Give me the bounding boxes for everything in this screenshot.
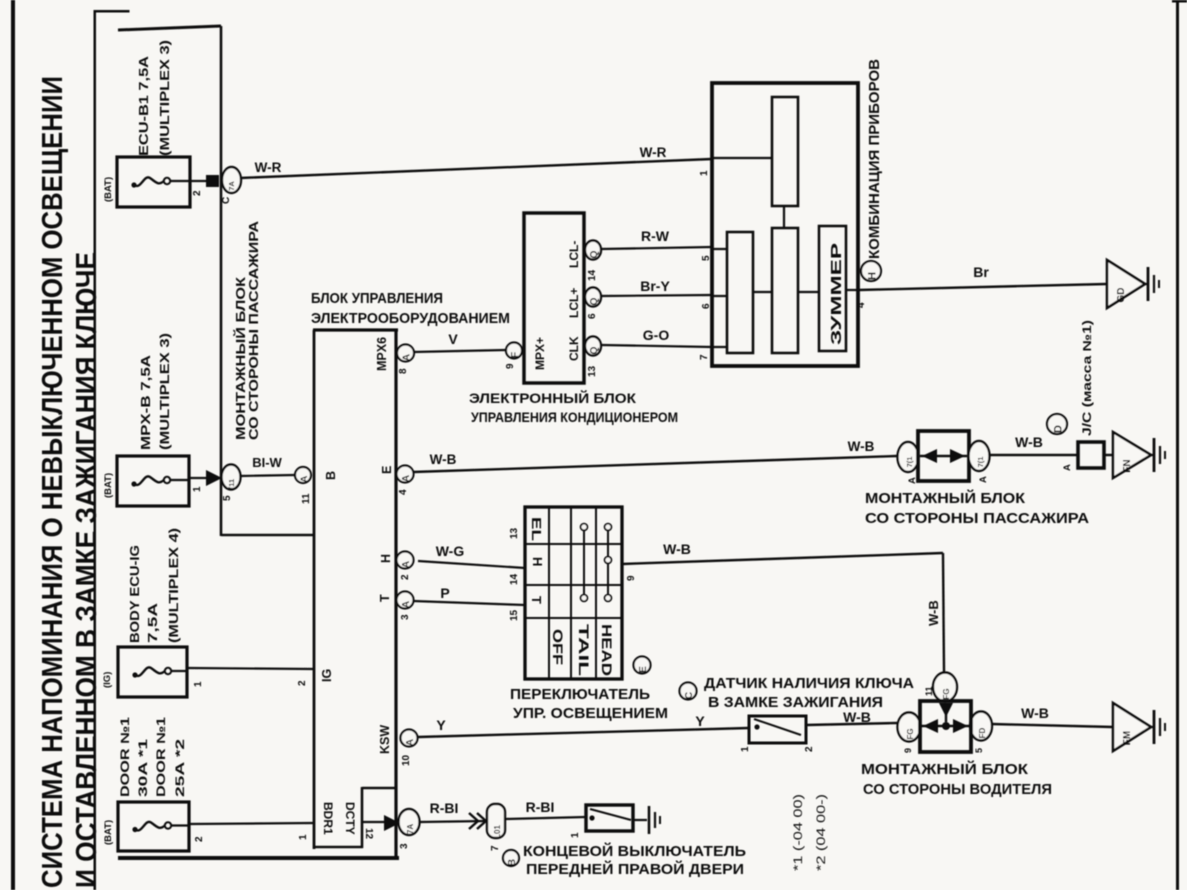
svg-text:И ОСТАВЛЕННОМ В ЗАМКЕ ЗАЖИГАНИ: И ОСТАВЛЕННОМ В ЗАМКЕ ЗАЖИГАНИЯ КЛЮЧЕ (71, 252, 103, 888)
svg-text:6: 6 (587, 313, 598, 319)
svg-text:Q: Q (589, 346, 600, 354)
svg-text:*2 (04 00-): *2 (04 00-) (816, 794, 828, 871)
svg-text:D: D (1053, 425, 1065, 433)
svg-text:A: A (402, 354, 413, 361)
svg-text:E: E (638, 666, 649, 673)
svg-text:H: H (530, 557, 545, 566)
svg-text:15: 15 (509, 609, 520, 621)
svg-text:E: E (380, 466, 394, 474)
svg-text:1: 1 (740, 746, 751, 752)
svg-text:(BAT): (BAT) (103, 473, 114, 498)
svg-text:(BAT): (BAT) (103, 820, 114, 845)
svg-text:BI-W: BI-W (252, 455, 282, 470)
svg-text:J/C (масса №1): J/C (масса №1) (1082, 320, 1094, 436)
svg-text:МОНТАЖНЫЙ БЛОК: МОНТАЖНЫЙ БЛОК (861, 760, 1029, 778)
svg-text:KSW: KSW (378, 725, 392, 754)
svg-text:1: 1 (192, 486, 203, 492)
svg-text:W-B: W-B (430, 452, 457, 467)
svg-text:10: 10 (401, 754, 412, 766)
svg-text:7A: 7A (227, 181, 236, 191)
svg-text:3: 3 (399, 843, 410, 849)
svg-text:T: T (378, 594, 392, 602)
svg-text:A: A (401, 475, 412, 482)
svg-text:GD: GD (1116, 288, 1127, 303)
svg-text:9: 9 (903, 748, 913, 753)
svg-text:УПР. ОСВЕЩЕНИЕМ: УПР. ОСВЕЩЕНИЕМ (513, 705, 668, 722)
svg-text:ПЕРЕДНЕЙ ПРАВОЙ ДВЕРИ: ПЕРЕДНЕЙ ПРАВОЙ ДВЕРИ (526, 860, 744, 878)
svg-text:ПЕРЕКЛЮЧАТЕЛЬ: ПЕРЕКЛЮЧАТЕЛЬ (510, 686, 650, 703)
svg-text:FD: FD (978, 727, 987, 738)
svg-text:4: 4 (398, 489, 409, 495)
svg-text:LCL+: LCL+ (567, 288, 581, 318)
svg-text:A: A (978, 476, 989, 483)
svg-text:W-B: W-B (926, 600, 941, 626)
svg-text:СО СТОРОНЫ ВОДИТЕЛЯ: СО СТОРОНЫ ВОДИТЕЛЯ (863, 781, 1052, 798)
svg-text:OFF: OFF (550, 629, 566, 666)
svg-text:C: C (221, 197, 232, 204)
svg-text:СО СТОРОНЫ ПАССАЖИРА: СО СТОРОНЫ ПАССАЖИРА (246, 220, 261, 440)
svg-text:B: B (507, 859, 518, 866)
svg-text:2: 2 (804, 746, 815, 752)
svg-text:9: 9 (626, 575, 637, 581)
svg-text:FG: FG (942, 688, 951, 699)
svg-text:1: 1 (699, 170, 710, 176)
svg-text:7: 7 (490, 845, 501, 851)
svg-text:Y: Y (695, 713, 705, 729)
svg-text:Br: Br (973, 264, 989, 280)
svg-text:Q: Q (589, 297, 600, 305)
svg-text:L01: L01 (493, 825, 502, 839)
svg-text:5: 5 (974, 748, 984, 753)
svg-text:LCL-: LCL- (567, 241, 581, 268)
svg-text:DCTY: DCTY (343, 802, 357, 835)
svg-text:BODY ECU-IG: BODY ECU-IG (128, 545, 142, 643)
svg-text:3: 3 (400, 614, 411, 620)
svg-text:1: 1 (570, 832, 581, 838)
svg-text:ЗУММЕР: ЗУММЕР (829, 242, 845, 345)
svg-text:IG: IG (320, 669, 334, 682)
svg-text:11: 11 (924, 686, 934, 696)
svg-text:HEAD: HEAD (599, 624, 615, 676)
svg-text:A: A (401, 561, 412, 568)
svg-text:(11: (11 (227, 479, 236, 489)
svg-text:14: 14 (587, 269, 598, 281)
svg-text:2: 2 (192, 190, 203, 196)
svg-text:EL: EL (529, 517, 544, 541)
svg-text:МОНТАЖНЫЙ БЛОК: МОНТАЖНЫЙ БЛОК (865, 489, 1026, 507)
svg-text:R-W: R-W (641, 228, 670, 244)
svg-text:2: 2 (194, 836, 205, 842)
svg-text:ДАТЧИК НАЛИЧИЯ КЛЮЧА: ДАТЧИК НАЛИЧИЯ КЛЮЧА (704, 675, 914, 692)
svg-text:4: 4 (856, 302, 867, 308)
svg-text:A: A (405, 739, 416, 746)
svg-text:13: 13 (587, 365, 598, 377)
svg-text:W-R: W-R (255, 160, 282, 175)
svg-text:СИСТЕМА НАПОМИНАНИЯ О НЕВЫКЛЮЧ: СИСТЕМА НАПОМИНАНИЯ О НЕВЫКЛЮЧЕННОМ ОСВЕ… (37, 76, 69, 888)
svg-text:(MULTIPLEX 4): (MULTIPLEX 4) (167, 528, 181, 643)
svg-text:W-B: W-B (1021, 705, 1049, 721)
svg-text:C: C (684, 692, 695, 699)
svg-text:TAIL: TAIL (576, 624, 592, 677)
svg-text:G-O: G-O (643, 327, 670, 343)
svg-text:A: A (1062, 464, 1073, 471)
svg-text:6: 6 (701, 303, 712, 309)
svg-text:14: 14 (509, 573, 520, 585)
svg-text:2: 2 (297, 680, 308, 686)
svg-text:W-B: W-B (663, 541, 691, 557)
svg-text:W-R: W-R (640, 145, 667, 160)
svg-text:25A *2: 25A *2 (173, 738, 187, 797)
svg-text:W-B: W-B (848, 439, 875, 454)
svg-text:УПРАВЛЕНИЯ КОНДИЦИОНЕРОМ: УПРАВЛЕНИЯ КОНДИЦИОНЕРОМ (471, 409, 678, 425)
svg-text:1: 1 (298, 834, 309, 840)
svg-text:БЛОК УПРАВЛЕНИЯ: БЛОК УПРАВЛЕНИЯ (311, 290, 443, 307)
svg-text:V: V (448, 331, 458, 347)
svg-text:H: H (379, 554, 393, 563)
svg-text:A: A (401, 601, 412, 608)
svg-text:FN: FN (1122, 459, 1133, 472)
svg-text:DOOR №1: DOOR №1 (154, 717, 168, 797)
svg-text:T: T (529, 596, 544, 604)
svg-text:*1 (-04 00): *1 (-04 00) (793, 794, 805, 871)
svg-text:7(1: 7(1 (905, 457, 914, 468)
svg-text:Q: Q (589, 250, 600, 258)
svg-text:ЭЛЕКТРОННЫЙ БЛОК: ЭЛЕКТРОННЫЙ БЛОК (469, 389, 636, 406)
svg-text:(MULTIPLEX 3): (MULTIPLEX 3) (158, 333, 172, 450)
svg-text:КОМБИНАЦИЯ ПРИБОРОВ: КОМБИНАЦИЯ ПРИБОРОВ (866, 59, 883, 259)
svg-text:СО СТОРОНЫ ПАССАЖИРА: СО СТОРОНЫ ПАССАЖИРА (865, 510, 1089, 527)
svg-text:9: 9 (505, 363, 516, 369)
svg-text:F: F (510, 352, 521, 358)
svg-text:В ЗАМКЕ ЗАЖИГАНИЯ: В ЗАМКЕ ЗАЖИГАНИЯ (708, 694, 883, 711)
svg-text:FG: FG (906, 728, 915, 739)
svg-text:MPX6: MPX6 (375, 337, 389, 371)
svg-text:MPX-B 7,5A: MPX-B 7,5A (139, 355, 153, 450)
svg-text:CLK: CLK (567, 336, 581, 361)
svg-text:(IG): (IG) (102, 672, 113, 688)
svg-text:13: 13 (509, 527, 520, 539)
svg-text:W-B: W-B (843, 709, 871, 725)
svg-text:7,5A: 7,5A (146, 603, 160, 643)
svg-text:H: H (867, 272, 879, 280)
svg-text:MPX+: MPX+ (533, 337, 547, 370)
svg-text:A: A (299, 475, 310, 482)
svg-text:Br-Y: Br-Y (640, 278, 670, 294)
svg-text:7A: 7A (406, 824, 415, 834)
svg-text:1: 1 (193, 681, 204, 687)
svg-text:B: B (324, 471, 338, 480)
svg-text:(BAT): (BAT) (103, 177, 114, 202)
svg-text:7: 7 (699, 354, 710, 360)
svg-text:5: 5 (701, 255, 712, 261)
svg-text:5: 5 (222, 495, 233, 501)
svg-text:Y: Y (436, 717, 446, 733)
svg-text:FM: FM (1122, 731, 1133, 745)
svg-text:ECU-B1 7,5A: ECU-B1 7,5A (137, 56, 151, 156)
svg-text:КОНЦЕВОЙ ВЫКЛЮЧАТЕЛЬ: КОНЦЕВОЙ ВЫКЛЮЧАТЕЛЬ (523, 842, 746, 860)
svg-text:11: 11 (301, 493, 312, 504)
svg-text:P: P (440, 585, 449, 601)
svg-text:7(1: 7(1 (976, 457, 985, 468)
svg-text:W-B: W-B (1015, 434, 1043, 450)
svg-text:(MULTIPLEX 3): (MULTIPLEX 3) (158, 40, 172, 156)
svg-text:DOOR №1: DOOR №1 (118, 717, 132, 797)
svg-text:2: 2 (400, 574, 411, 580)
svg-text:R-BI: R-BI (430, 800, 459, 816)
svg-text:8: 8 (398, 368, 409, 374)
svg-text:12: 12 (363, 828, 374, 840)
svg-text:ЭЛЕКТРООБОРУДОВАНИЕМ: ЭЛЕКТРООБОРУДОВАНИЕМ (311, 310, 510, 327)
svg-text:30A *1: 30A *1 (136, 738, 150, 797)
svg-text:R-BI: R-BI (526, 799, 555, 815)
svg-text:BDR1: BDR1 (321, 802, 335, 835)
svg-text:W-G: W-G (436, 543, 465, 559)
